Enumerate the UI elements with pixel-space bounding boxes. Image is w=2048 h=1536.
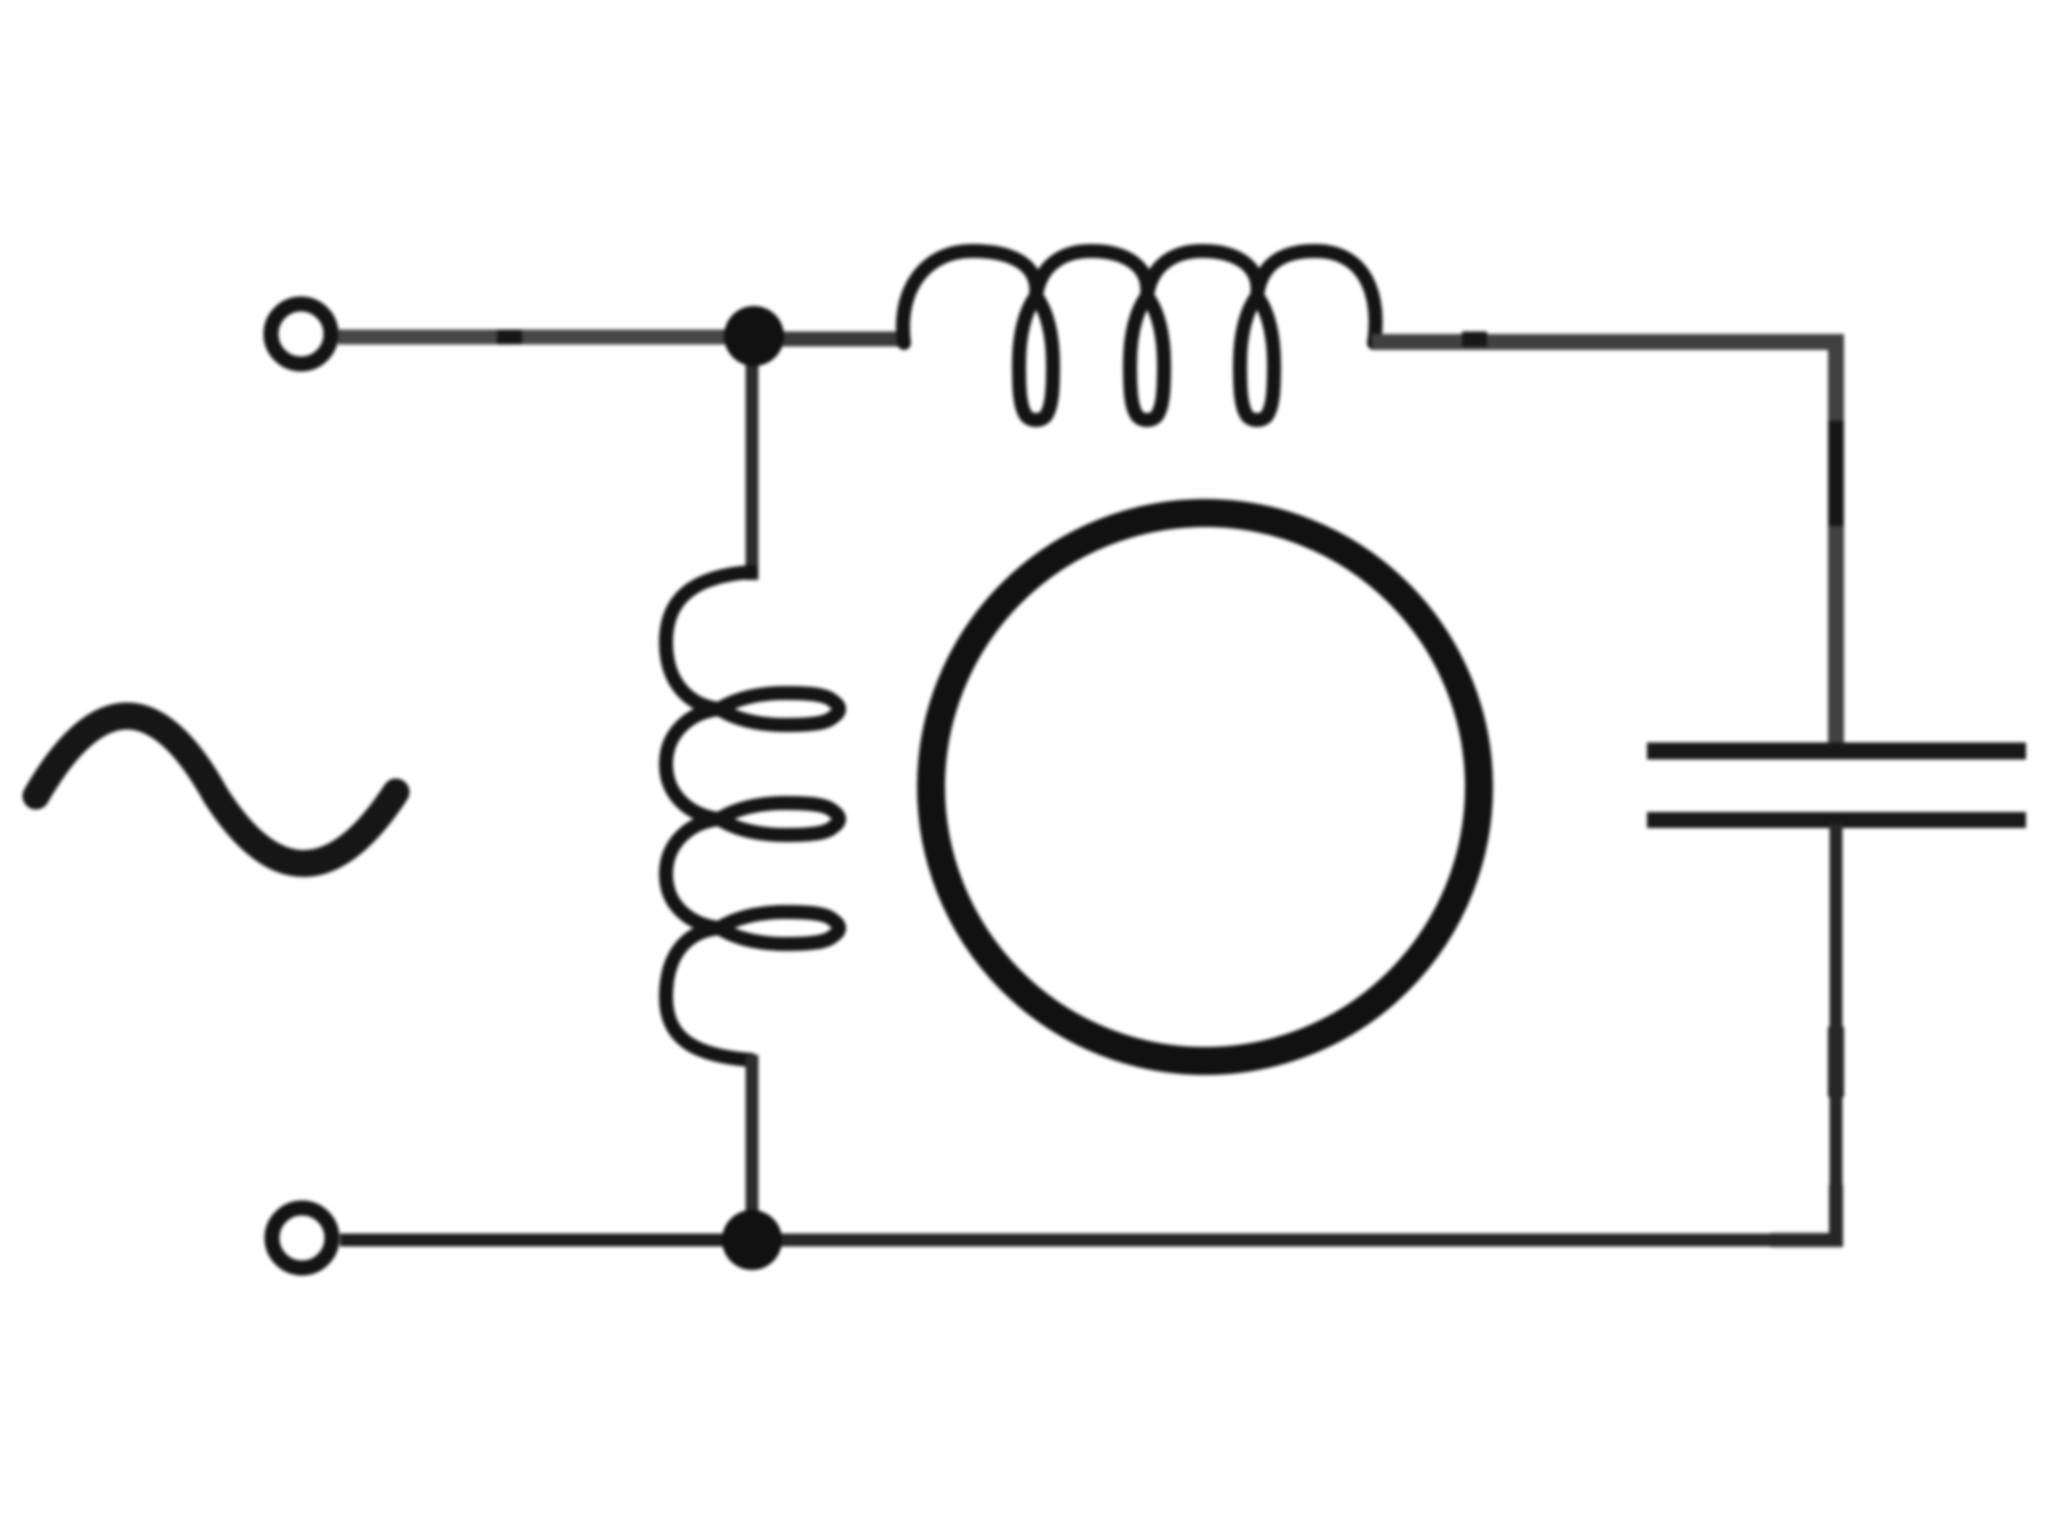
wire: bottom terminal to junction B [340,1234,752,1246]
capacitor C1 bottom plate [1647,812,2026,828]
junction node B (bottom) [722,1210,782,1270]
AC source (sine symbol) [36,716,396,864]
wire: top terminal to junction A [338,330,760,345]
wire: start winding to top-right corner, down to capacitor [1372,342,1836,748]
wire: junction A toward start winding [760,332,910,347]
wire shading dash (top wire right) [1462,332,1487,347]
wire shading segment (right riser lower) [1828,1027,1844,1097]
wire shading segment (bottom-right corner) [1770,1185,1836,1240]
wire: junction A down to main winding [746,334,759,580]
junction node A (top) [724,306,784,366]
wire: main winding to junction B [746,1055,759,1240]
wire shading dash (bottom wire left) [387,1234,405,1246]
wire shading segment (right riser upper) [1828,421,1844,526]
terminal (top-left, open circle) [271,304,331,364]
inductor L1 (main winding, vertical coil) [666,572,839,1060]
capacitor C1 top plate [1647,743,2026,760]
wire shading dash (top wire left) [497,330,522,345]
wire: capacitor to bottom-right corner and along bottom to junction B [340,824,1836,1240]
motor M (rotor circle) [931,513,1479,1061]
terminal (bottom-left, open circle) [272,1208,332,1268]
inductor L2 (start/auxiliary winding, horizontal coil) [903,251,1376,420]
